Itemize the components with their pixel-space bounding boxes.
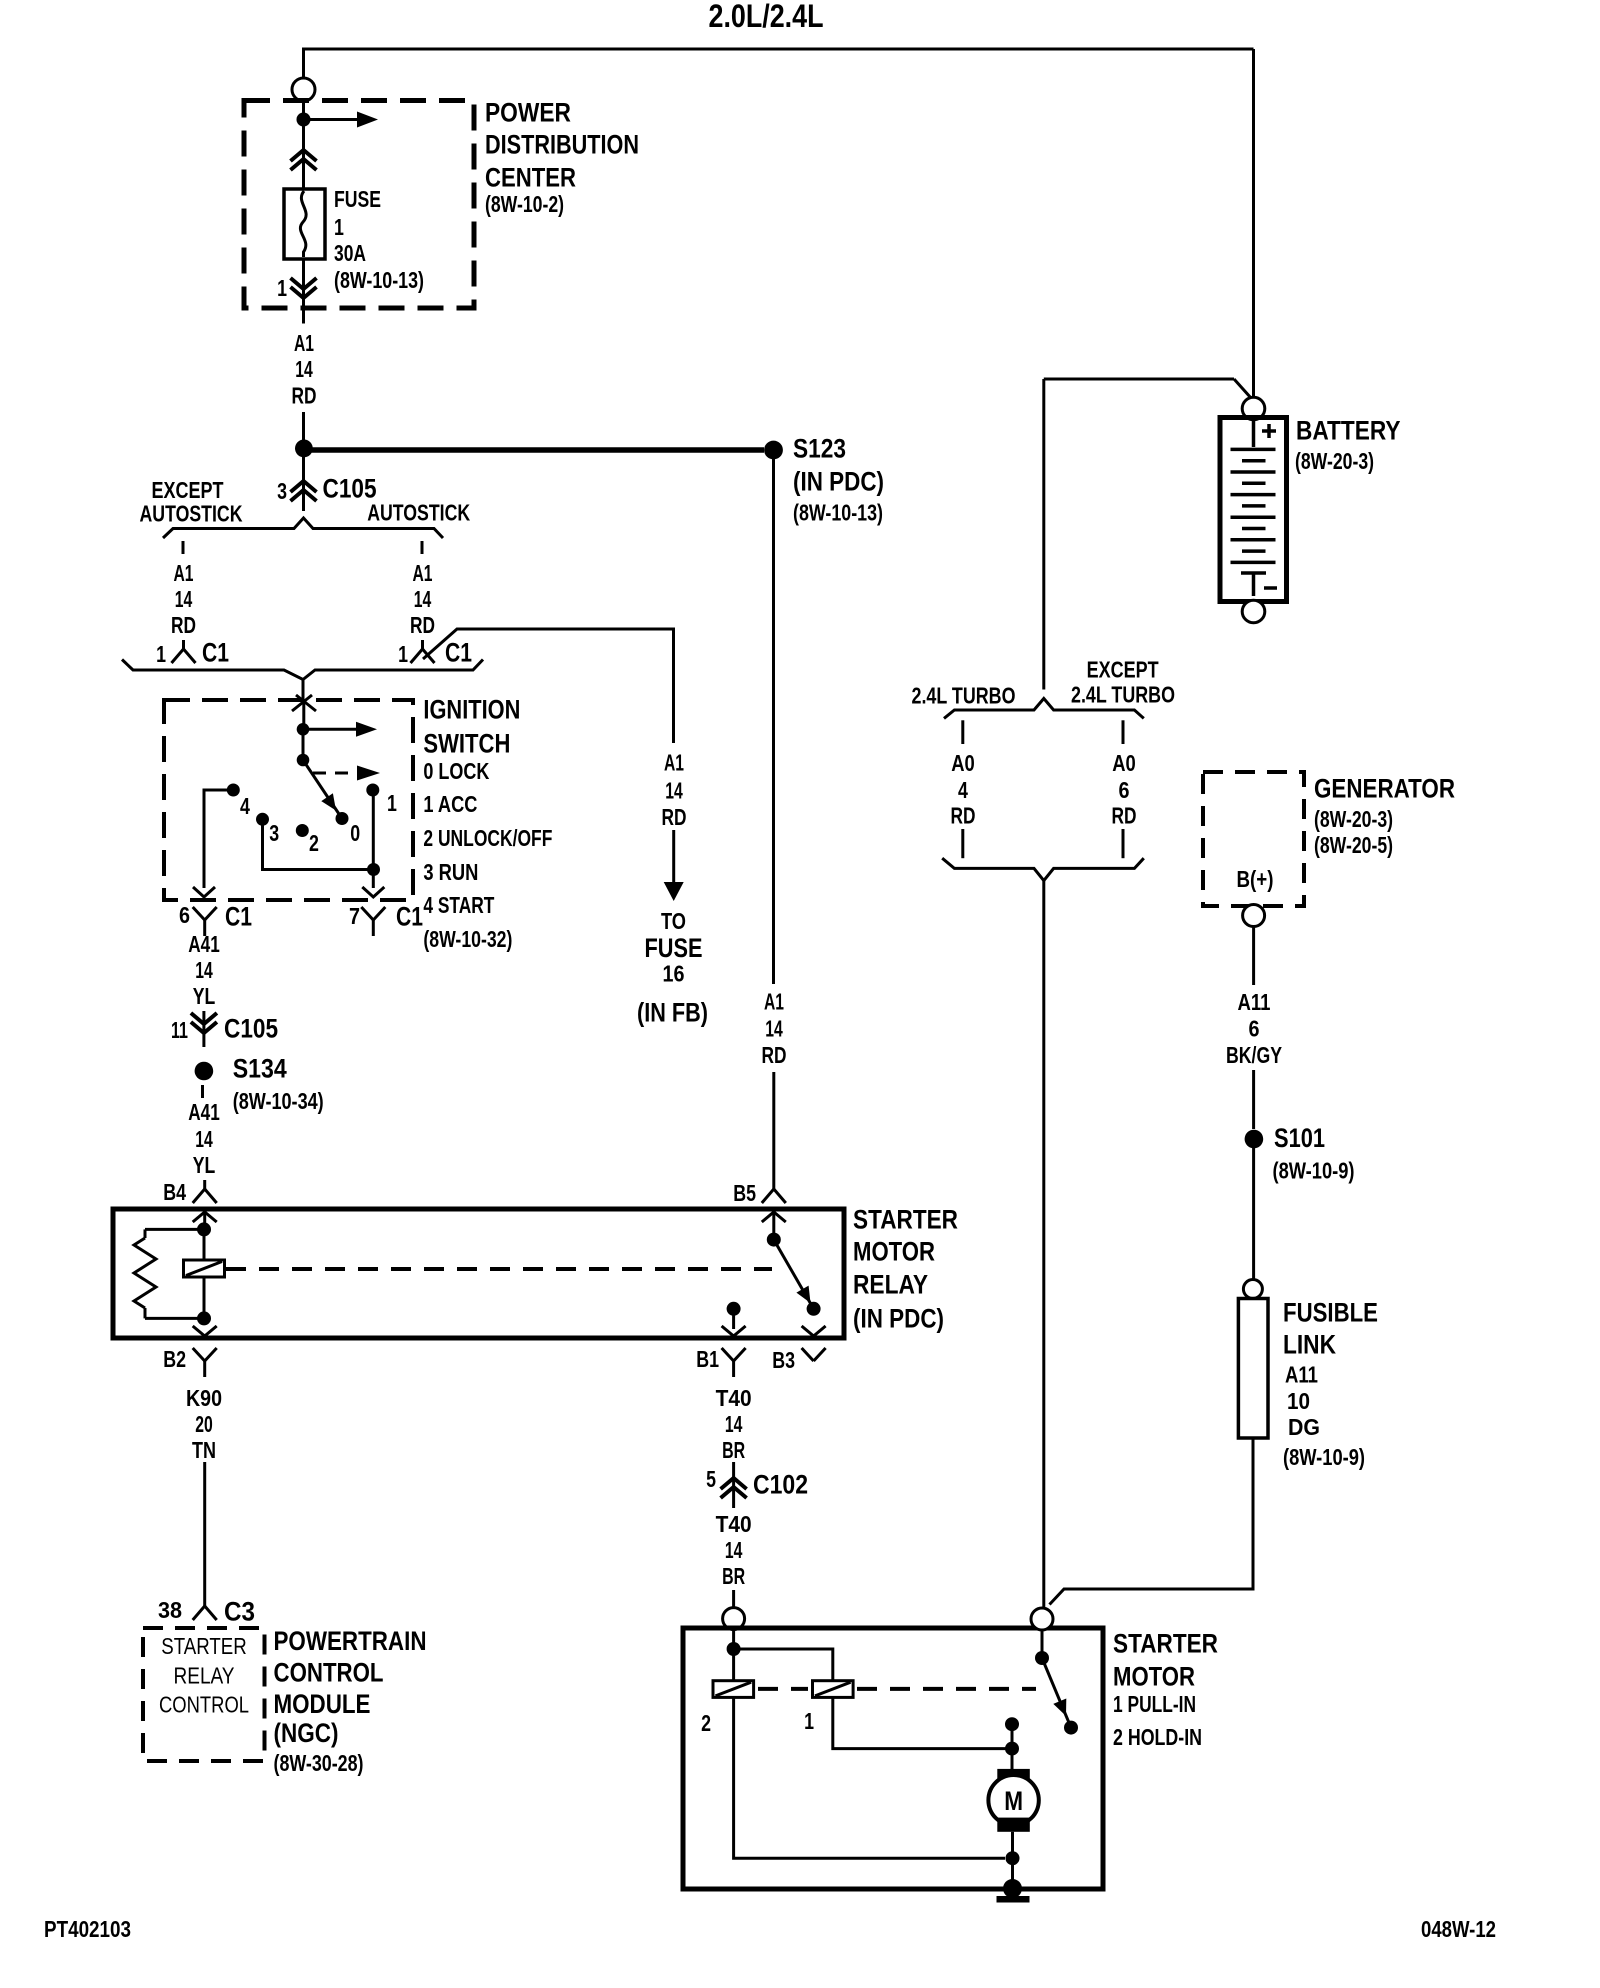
svg-text:FUSE: FUSE [645, 933, 703, 963]
svg-text:K90: K90 [186, 1385, 222, 1411]
connector C1 pin1 left [156, 638, 229, 668]
wire to starter terminal [732, 1590, 735, 1608]
starter terminal circle left [723, 1608, 745, 1630]
splice S123 [764, 441, 783, 460]
svg-text:A1: A1 [413, 560, 433, 586]
relay B2 exit [193, 1326, 217, 1336]
wire contact3 to junction [263, 819, 374, 869]
starter motor label [1113, 1629, 1218, 1751]
ignition node dot lower [297, 754, 310, 767]
svg-text:YL: YL [193, 983, 216, 1009]
starter motor box [683, 1628, 1103, 1889]
svg-text:A11: A11 [1238, 989, 1271, 1015]
wire fuse to PDC edge [302, 259, 305, 324]
svg-text:RD: RD [951, 803, 976, 829]
svg-text:5: 5 [706, 1466, 716, 1492]
wire to B5 connector [772, 1072, 775, 1180]
connector B4 [163, 1179, 217, 1205]
solenoid switch arm [1042, 1658, 1071, 1728]
wire label A1 14 RD at B5 [762, 989, 787, 1068]
wire contact1 to pin7 [362, 790, 384, 897]
junction dot at bus [295, 440, 313, 458]
wire stub turbo left [961, 720, 964, 744]
footer 048W-12 [1421, 1916, 1496, 1942]
connector B2 [163, 1346, 217, 1377]
wire to ground [1011, 1858, 1014, 1884]
svg-text:BATTERY: BATTERY [1296, 416, 1401, 446]
svg-text:MOTOR: MOTOR [853, 1237, 935, 1267]
wire stub turbo right lower [1122, 829, 1125, 858]
svg-text:STARTER: STARTER [161, 1633, 247, 1659]
connector B1 [696, 1346, 745, 1377]
starter motor relay label [853, 1205, 958, 1334]
svg-text:CONTROL: CONTROL [159, 1692, 249, 1718]
svg-text:GENERATOR: GENERATOR [1314, 774, 1455, 804]
solenoid common dot [1035, 1651, 1049, 1665]
svg-text:C105: C105 [224, 1014, 278, 1044]
svg-text:RD: RD [171, 612, 196, 638]
motor feed dot [1005, 1717, 1019, 1731]
svg-text:A1: A1 [664, 750, 684, 776]
fusible link [1238, 1299, 1268, 1439]
starter motor M [988, 1769, 1038, 1832]
wire S101 to fusible link [1252, 1148, 1255, 1280]
wire PDC internal [302, 101, 305, 189]
svg-text:B(+): B(+) [1237, 866, 1274, 892]
svg-text:M: M [1004, 1786, 1023, 1816]
svg-text:S134: S134 [233, 1054, 287, 1084]
wire label A1 14 RD right branch [410, 560, 435, 638]
ignition switch box [164, 700, 413, 900]
svg-text:14: 14 [725, 1537, 743, 1563]
svg-text:A1: A1 [294, 330, 314, 356]
svg-text:2 HOLD-IN: 2 HOLD-IN [1113, 1724, 1202, 1750]
svg-text:EXCEPT: EXCEPT [1087, 656, 1159, 682]
svg-text:RD: RD [292, 383, 317, 409]
wire label A11 6 BK/GY [1226, 989, 1282, 1068]
title 2.0L/2.4L [709, 0, 824, 34]
svg-text:IGNITION: IGNITION [423, 695, 520, 725]
battery label [1295, 416, 1401, 475]
svg-text:C1: C1 [396, 902, 423, 932]
svg-text:T40: T40 [716, 1511, 752, 1537]
svg-text:2.0L/2.4L: 2.0L/2.4L [709, 0, 824, 34]
wire turbo merge to starter [1042, 881, 1045, 1609]
svg-text:(8W-10-9): (8W-10-9) [1273, 1158, 1355, 1184]
svg-text:1 ACC: 1 ACC [423, 791, 477, 817]
connector C105 pin11 [171, 1011, 278, 1047]
svg-text:0: 0 [350, 820, 360, 846]
svg-text:14: 14 [414, 586, 432, 612]
powertrain control module label [274, 1626, 427, 1776]
footer PT402103 [44, 1916, 131, 1942]
svg-text:AUTOSTICK: AUTOSTICK [367, 499, 470, 525]
wire stub left branch [182, 541, 185, 554]
relay switch arm [774, 1240, 814, 1309]
connector C1 pin6 [179, 902, 252, 937]
svg-text:MOTOR: MOTOR [1113, 1662, 1195, 1692]
svg-text:RD: RD [1112, 803, 1137, 829]
arrow to fuse 16 [664, 830, 684, 901]
svg-text:T40: T40 [716, 1385, 752, 1411]
bus wire to S123 [308, 447, 764, 453]
wire battery feed junction [1044, 379, 1251, 398]
svg-text:TN: TN [192, 1437, 216, 1463]
wire label A1 14 RD below PDC [292, 330, 317, 409]
svg-text:B3: B3 [772, 1347, 795, 1373]
wire stub turbo left lower [961, 829, 964, 858]
svg-text:FUSIBLE: FUSIBLE [1283, 1298, 1378, 1328]
C105 pin 3 label [277, 478, 287, 504]
svg-text:LINK: LINK [1283, 1330, 1336, 1360]
svg-text:DISTRIBUTION: DISTRIBUTION [485, 130, 639, 160]
svg-text:YL: YL [193, 1152, 216, 1178]
generator B+ label [1237, 866, 1274, 892]
wire into C105 [302, 457, 305, 511]
svg-text:14: 14 [195, 957, 213, 983]
connector chevrons above fuse [291, 150, 317, 170]
merge brace turbo [942, 858, 1144, 880]
wire into starter [732, 1630, 735, 1649]
relay actuation dashed line [226, 1267, 772, 1271]
connector B5 [733, 1180, 786, 1206]
ground [997, 1879, 1030, 1903]
svg-text:B4: B4 [163, 1179, 186, 1205]
svg-text:6: 6 [1249, 1016, 1260, 1042]
connector circle at PDC input [292, 78, 315, 101]
wire entry mark ignition [292, 695, 316, 711]
ignition feed arrow [303, 722, 377, 737]
contact 2 [296, 824, 319, 856]
svg-text:DG: DG [1288, 1414, 1320, 1440]
svg-text:2.4L TURBO: 2.4L TURBO [912, 683, 1016, 709]
svg-text:1 PULL-IN: 1 PULL-IN [1113, 1691, 1196, 1717]
power distribution center box [244, 101, 474, 309]
svg-text:1: 1 [334, 214, 344, 240]
svg-text:CONTROL: CONTROL [274, 1658, 384, 1688]
ground junction dot [1006, 1851, 1020, 1865]
svg-text:AUTOSTICK: AUTOSTICK [140, 501, 243, 527]
wire label T40 14 BR upper [716, 1385, 752, 1463]
wire label T40 14 BR lower [716, 1511, 752, 1589]
svg-text:3: 3 [269, 820, 279, 846]
relay resistor [134, 1229, 204, 1318]
svg-text:(8W-20-3): (8W-20-3) [1314, 806, 1393, 832]
connector chevrons PDC pin 1 [291, 278, 317, 298]
relay coil K90 [184, 1229, 225, 1318]
battery [1220, 418, 1287, 602]
wire fusible link to starter [1050, 1438, 1254, 1605]
svg-text:1: 1 [387, 790, 397, 816]
svg-text:14: 14 [665, 778, 683, 804]
svg-text:C1: C1 [225, 902, 252, 932]
svg-text:(8W-10-2): (8W-10-2) [485, 191, 564, 217]
wire solenoid switch [1041, 1630, 1044, 1658]
svg-text:14: 14 [195, 1126, 213, 1152]
splice S101 label [1273, 1123, 1355, 1184]
svg-text:C3: C3 [224, 1597, 255, 1627]
connector C105 pin3 chevrons [291, 481, 317, 501]
splice S123 label [793, 434, 884, 526]
wire contact4 to pin6 [193, 790, 233, 897]
connector B3 [772, 1347, 825, 1373]
wire generator down [1252, 927, 1255, 986]
contact 3 [256, 813, 279, 846]
svg-text:POWERTRAIN: POWERTRAIN [274, 1626, 427, 1656]
svg-text:S123: S123 [793, 434, 846, 464]
wire to S101 [1252, 1070, 1255, 1129]
relay coil top dot [197, 1222, 211, 1236]
label EXCEPT AUTOSTICK [140, 477, 243, 527]
relay B1 wire [722, 1309, 746, 1336]
svg-text:14: 14 [295, 356, 313, 382]
connector C102 pin5 [706, 1462, 808, 1508]
svg-text:PT402103: PT402103 [44, 1916, 131, 1942]
svg-text:(NGC): (NGC) [274, 1718, 339, 1748]
svg-text:1: 1 [156, 641, 166, 667]
contact 4 [227, 784, 250, 820]
svg-text:RD: RD [662, 804, 687, 830]
splice S134 [195, 1062, 214, 1081]
svg-text:38: 38 [158, 1597, 182, 1623]
solenoid contact dot [1064, 1721, 1078, 1735]
wire label A1 14 RD fuse16 branch [662, 750, 687, 830]
svg-text:1: 1 [398, 641, 408, 667]
svg-text:1: 1 [804, 1708, 814, 1734]
connector C1 pin7 [349, 902, 423, 937]
fuse label [334, 186, 424, 293]
svg-text:6: 6 [1119, 777, 1130, 803]
starter terminal circle right [1031, 1608, 1053, 1630]
svg-text:4: 4 [240, 793, 250, 819]
wire branch to fuse 16 [423, 629, 674, 743]
starter dashed link [758, 1687, 1036, 1691]
svg-text:TO: TO [661, 908, 686, 934]
ignition wiper arm [303, 760, 342, 819]
hold-in coil 2 label [701, 1710, 711, 1736]
wire motor to ground [1011, 1832, 1014, 1858]
merge brace into ignition switch [122, 660, 483, 680]
svg-text:A0: A0 [1112, 750, 1136, 776]
label 2.4L TURBO [912, 683, 1016, 709]
starter junction dot [727, 1642, 741, 1656]
battery terminal circle top [1242, 397, 1265, 420]
relay switch common dot [767, 1233, 781, 1247]
svg-text:RELAY: RELAY [174, 1663, 235, 1689]
svg-text:A0: A0 [951, 750, 975, 776]
generator box [1203, 772, 1304, 906]
wire coil2 to ground node [734, 1697, 1005, 1858]
wire brace to ignition box [302, 680, 305, 701]
fusible link label [1283, 1298, 1378, 1471]
wire label A1 14 RD left branch [171, 560, 196, 638]
svg-text:MODULE: MODULE [274, 1689, 371, 1719]
label EXCEPT 2.4L TURBO [1071, 656, 1175, 707]
svg-text:6: 6 [179, 902, 190, 928]
relay coil bottom dot [197, 1311, 211, 1325]
svg-text:C1: C1 [445, 638, 472, 668]
powertrain control module box [143, 1628, 265, 1761]
ignition dashed arrow [313, 766, 380, 781]
svg-text:(IN FB): (IN FB) [637, 998, 708, 1028]
svg-text:(8W-30-28): (8W-30-28) [274, 1750, 364, 1776]
connector C1 pin1 right [398, 638, 472, 668]
svg-text:14: 14 [765, 1015, 783, 1041]
svg-text:2: 2 [701, 1710, 711, 1736]
wire coil1 to motor [833, 1697, 1012, 1748]
svg-text:(8W-10-34): (8W-10-34) [233, 1088, 324, 1114]
splice S101 [1245, 1130, 1264, 1149]
power distribution center label [485, 98, 639, 218]
svg-text:C102: C102 [753, 1470, 808, 1500]
svg-text:10: 10 [1287, 1388, 1310, 1414]
relay contact B3 dot [807, 1302, 821, 1316]
splice dot inside PDC [297, 113, 311, 127]
wire stub right branch [421, 541, 424, 554]
relay B3 exit [802, 1326, 826, 1336]
svg-text:20: 20 [195, 1411, 213, 1437]
svg-text:(8W-20-5): (8W-20-5) [1314, 832, 1393, 858]
junction dot pin7 [367, 863, 380, 876]
svg-text:C1: C1 [202, 638, 229, 668]
split brace autostick [163, 518, 443, 538]
svg-text:3 RUN: 3 RUN [423, 859, 478, 885]
wire stub below S134 [201, 1085, 204, 1098]
svg-text:RD: RD [762, 1042, 787, 1068]
svg-text:14: 14 [725, 1411, 743, 1437]
pull-in coil 1 [813, 1681, 854, 1698]
svg-text:3: 3 [277, 478, 287, 504]
svg-text:B1: B1 [696, 1346, 719, 1372]
svg-text:RELAY: RELAY [853, 1270, 928, 1300]
svg-text:EXCEPT: EXCEPT [152, 477, 224, 503]
connector C3 pin38 [158, 1597, 255, 1627]
label TO FUSE 16 IN FB [637, 908, 708, 1028]
wire label A0 6 RD [1112, 750, 1137, 829]
svg-text:0 LOCK: 0 LOCK [423, 758, 489, 784]
svg-text:(8W-10-9): (8W-10-9) [1283, 1444, 1365, 1470]
fuse 1 30A [284, 189, 325, 259]
svg-text:S101: S101 [1274, 1123, 1325, 1153]
svg-text:(IN PDC): (IN PDC) [793, 467, 884, 497]
svg-text:FUSE: FUSE [334, 186, 381, 212]
svg-text:048W-12: 048W-12 [1421, 1916, 1496, 1942]
pull-in coil 1 label [804, 1708, 814, 1734]
wire between nodes [302, 729, 305, 760]
relay B5 entry [762, 1212, 786, 1240]
svg-text:2: 2 [309, 830, 319, 856]
svg-text:CENTER: CENTER [485, 163, 576, 193]
svg-text:A41: A41 [188, 1099, 220, 1125]
svg-text:4 START: 4 START [423, 892, 494, 918]
battery terminal circle bottom [1242, 600, 1265, 623]
svg-text:A41: A41 [188, 931, 220, 957]
generator label [1314, 774, 1455, 859]
svg-text:STARTER: STARTER [853, 1205, 958, 1235]
svg-text:RD: RD [410, 612, 435, 638]
svg-text:SWITCH: SWITCH [423, 729, 510, 759]
svg-text:A11: A11 [1285, 1362, 1318, 1388]
svg-text:(8W-10-32): (8W-10-32) [423, 926, 512, 952]
svg-text:30A: 30A [334, 240, 366, 266]
wire to motor [1011, 1724, 1014, 1769]
contact 0 [336, 812, 361, 846]
svg-text:BK/GY: BK/GY [1226, 1042, 1282, 1068]
svg-text:BR: BR [722, 1563, 745, 1589]
svg-text:(8W-20-3): (8W-20-3) [1295, 448, 1374, 474]
wire to turbo split [1042, 379, 1045, 690]
svg-text:(8W-10-13): (8W-10-13) [334, 267, 424, 293]
wire label A41 14 YL upper [188, 931, 220, 1009]
wire label A41 14 YL lower [188, 1099, 220, 1178]
svg-text:(8W-10-13): (8W-10-13) [793, 500, 883, 526]
svg-text:POWER: POWER [485, 98, 571, 128]
feed arrow inside PDC [304, 112, 379, 128]
relay B4 entry [193, 1212, 217, 1229]
relay contact B1 dot [727, 1302, 741, 1316]
svg-text:A1: A1 [764, 989, 784, 1015]
wire B2 to C3 [203, 1462, 206, 1597]
wire stub turbo right [1122, 720, 1125, 744]
wire to splice S123 bus [302, 412, 305, 440]
svg-text:BR: BR [722, 1437, 745, 1463]
svg-text:B5: B5 [733, 1180, 756, 1206]
wire top feed from PDC to battery [304, 49, 1254, 400]
svg-text:STARTER: STARTER [1113, 1629, 1218, 1659]
svg-text:(IN PDC): (IN PDC) [853, 1304, 944, 1334]
split brace turbo [944, 699, 1144, 719]
wire S123 to B5 [772, 459, 775, 984]
wire label K90 20 TN [186, 1385, 222, 1463]
svg-text:1: 1 [277, 275, 287, 301]
ignition node dot upper [297, 723, 310, 736]
pin 1 label [277, 275, 287, 301]
wire ignition feed [302, 703, 305, 729]
fusible link terminal circle [1243, 1280, 1262, 1299]
svg-text:2.4L TURBO: 2.4L TURBO [1071, 682, 1175, 708]
svg-text:B2: B2 [163, 1346, 186, 1372]
starter relay control label [159, 1633, 249, 1718]
contact 1 [366, 784, 397, 817]
svg-text:16: 16 [663, 961, 685, 987]
label AUTOSTICK [367, 499, 470, 525]
svg-text:A1: A1 [174, 560, 194, 586]
generator terminal circle [1243, 905, 1265, 927]
splice S134 label [233, 1054, 324, 1115]
svg-text:4: 4 [958, 777, 968, 803]
svg-text:11: 11 [171, 1017, 188, 1043]
motor junction dot [1005, 1742, 1019, 1756]
svg-text:7: 7 [349, 903, 360, 929]
starter motor relay box [113, 1209, 844, 1338]
svg-text:2 UNLOCK/OFF: 2 UNLOCK/OFF [423, 825, 552, 851]
wire to pull-in coil [734, 1649, 833, 1681]
ignition switch labels [423, 695, 552, 953]
hold-in coil 2 [713, 1649, 754, 1697]
wire label A0 4 RD [951, 750, 976, 829]
svg-text:14: 14 [175, 586, 193, 612]
connector C105 label [323, 474, 377, 504]
